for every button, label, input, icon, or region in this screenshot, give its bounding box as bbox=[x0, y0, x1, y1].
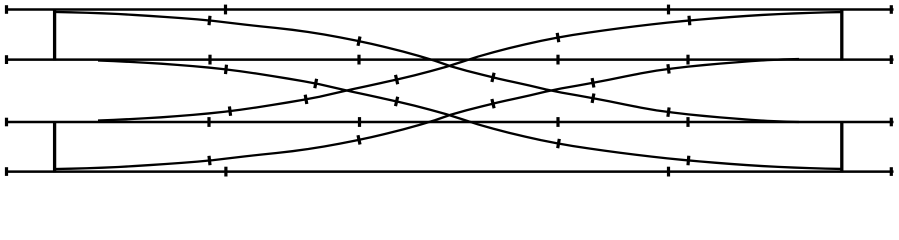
end tick left line4 bbox=[5, 167, 8, 176]
end tick left line3 bbox=[5, 118, 8, 127]
tick on curve C31 bbox=[229, 106, 230, 115]
track line 2 bbox=[5, 58, 894, 61]
tick on curve C13 bbox=[492, 73, 494, 82]
tick on curve C42 bbox=[592, 78, 594, 87]
tick on curve C31 bbox=[305, 95, 307, 104]
tick on curve C42 bbox=[492, 99, 494, 108]
tick line1 bbox=[667, 5, 670, 15]
tick line3 bbox=[358, 117, 361, 127]
tick on curve C24 bbox=[558, 139, 560, 148]
tick on curve C24 bbox=[396, 97, 398, 106]
tick on curve C13 bbox=[592, 94, 594, 103]
tick on curve C42 bbox=[358, 135, 360, 144]
track line 3 bbox=[5, 121, 894, 124]
tick on curve C24 bbox=[315, 79, 317, 88]
left connector bar lower (line3-line4) bbox=[53, 121, 56, 173]
end tick right line2 bbox=[890, 55, 893, 64]
tick on curve C31 bbox=[557, 33, 559, 42]
end tick right line1 bbox=[890, 5, 893, 14]
tick line2 bbox=[357, 55, 360, 65]
tick line2 bbox=[686, 55, 689, 65]
tick line3 bbox=[207, 117, 210, 127]
tick line2 bbox=[556, 55, 559, 65]
end tick left line2 bbox=[5, 55, 8, 64]
end tick right line4 bbox=[890, 167, 893, 176]
left connector bar upper (line1-line2) bbox=[53, 9, 56, 61]
crossover curve C31 (line3 left to line1 right) bbox=[98, 12, 842, 120]
track line 1 bbox=[5, 8, 894, 11]
crossover curve C42 (line4 left to line2 right) bbox=[55, 59, 799, 169]
tick on curve C42 bbox=[668, 64, 669, 73]
tick line4 bbox=[667, 167, 670, 177]
track line 4 bbox=[5, 170, 894, 173]
tick on curve C31 bbox=[396, 75, 398, 84]
right connector bar upper (line1-line2) bbox=[840, 9, 843, 61]
end tick left line1 bbox=[5, 5, 8, 14]
tick line1 bbox=[224, 5, 227, 15]
tick on curve C24 bbox=[686, 156, 690, 166]
tick on curve C24 bbox=[226, 65, 227, 74]
tick line3 bbox=[556, 117, 559, 127]
tick on curve C13 bbox=[668, 107, 669, 116]
tick on curve C42 bbox=[209, 156, 210, 165]
tick line3 bbox=[686, 117, 689, 127]
right connector bar lower (line3-line4) bbox=[840, 121, 843, 173]
crossover curve C13 (line1 left to line3 right) bbox=[55, 12, 799, 122]
crossover curve C24 (line2 left to line4 right) bbox=[98, 61, 842, 169]
tick line2 bbox=[208, 55, 211, 65]
tick on curve C31 bbox=[687, 16, 691, 26]
end tick right line3 bbox=[890, 118, 893, 127]
tick line4 bbox=[224, 167, 227, 177]
tick on curve C13 bbox=[209, 16, 210, 25]
tick on curve C13 bbox=[358, 37, 360, 46]
